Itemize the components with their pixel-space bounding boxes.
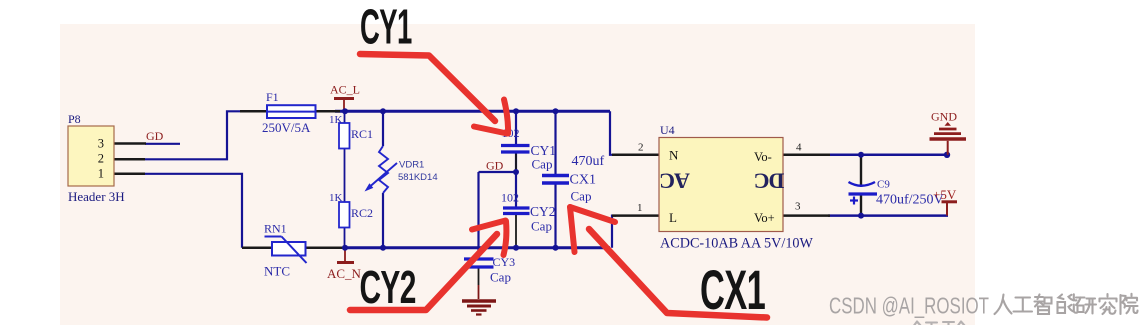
svg-text:GND: GND bbox=[931, 110, 957, 124]
svg-text:Cap: Cap bbox=[490, 270, 511, 285]
svg-text:ACDC-10AB AA 5V/10W: ACDC-10AB AA 5V/10W bbox=[660, 236, 814, 252]
svg-text:102: 102 bbox=[501, 191, 519, 205]
svg-text:GD: GD bbox=[146, 129, 164, 143]
svg-text:CX1: CX1 bbox=[700, 258, 765, 321]
svg-text:CY2: CY2 bbox=[360, 263, 416, 314]
svg-text:AC_N: AC_N bbox=[327, 266, 362, 281]
svg-text:1: 1 bbox=[98, 167, 104, 181]
svg-text:U4: U4 bbox=[660, 123, 675, 137]
svg-text:2: 2 bbox=[98, 152, 104, 166]
svg-text:1K: 1K bbox=[329, 192, 343, 204]
svg-text:Vo-: Vo- bbox=[754, 150, 772, 164]
svg-text:250V/5A: 250V/5A bbox=[262, 120, 311, 135]
svg-text:VDR1: VDR1 bbox=[399, 160, 424, 171]
svg-text:F1: F1 bbox=[266, 90, 279, 104]
svg-text:Header 3H: Header 3H bbox=[68, 189, 125, 204]
svg-text:RC2: RC2 bbox=[351, 206, 373, 220]
svg-text:1: 1 bbox=[637, 202, 643, 214]
svg-text:1K: 1K bbox=[329, 114, 343, 126]
svg-text:581KD14: 581KD14 bbox=[398, 172, 438, 183]
svg-text:4: 4 bbox=[796, 142, 802, 154]
svg-text:CY2: CY2 bbox=[530, 204, 556, 219]
svg-text:C9: C9 bbox=[877, 179, 890, 191]
svg-text:3: 3 bbox=[795, 201, 801, 213]
svg-text:DC: DC bbox=[755, 169, 785, 194]
svg-text:NTC: NTC bbox=[264, 264, 290, 279]
svg-text:3: 3 bbox=[98, 137, 104, 151]
svg-text:P8: P8 bbox=[68, 112, 81, 126]
svg-text:AC_L: AC_L bbox=[330, 83, 360, 97]
svg-text:+5V: +5V bbox=[933, 187, 957, 202]
svg-text:RN1: RN1 bbox=[264, 222, 287, 236]
svg-text:Cap: Cap bbox=[532, 157, 553, 172]
svg-text:RC1: RC1 bbox=[351, 127, 373, 141]
svg-text:Cap: Cap bbox=[531, 219, 552, 234]
svg-text:AC: AC bbox=[660, 169, 690, 194]
svg-text:N: N bbox=[669, 148, 679, 163]
svg-text:2: 2 bbox=[638, 142, 644, 154]
svg-text:CY1: CY1 bbox=[360, 0, 412, 54]
svg-text:470uf: 470uf bbox=[572, 154, 605, 169]
svg-text:Vo+: Vo+ bbox=[754, 211, 775, 225]
svg-text:CSDN @AI_ROSIOT: CSDN @AI_ROSIOT bbox=[829, 293, 989, 319]
svg-text:Cap: Cap bbox=[571, 189, 592, 204]
svg-text:GD: GD bbox=[486, 159, 504, 173]
svg-text:L: L bbox=[669, 210, 677, 225]
svg-text:CX1: CX1 bbox=[570, 173, 596, 188]
